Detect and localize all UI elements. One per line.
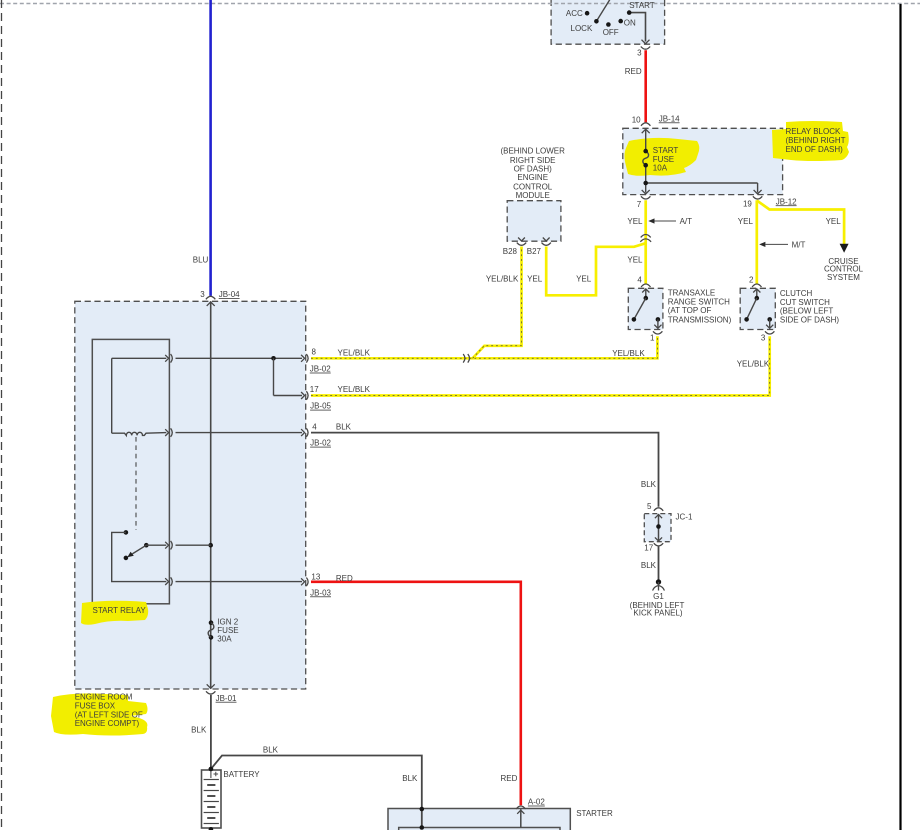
svg-text:7: 7 [637, 200, 642, 209]
svg-text:STARTER: STARTER [576, 809, 613, 818]
svg-text:ACC: ACC [566, 9, 583, 18]
svg-text:MODULE: MODULE [516, 191, 550, 200]
svg-text:19: 19 [743, 199, 752, 208]
svg-text:LOCK: LOCK [571, 24, 593, 33]
svg-text:4: 4 [312, 423, 317, 432]
svg-text:JB-01: JB-01 [216, 694, 237, 703]
svg-text:10: 10 [632, 116, 641, 125]
svg-text:YEL: YEL [627, 217, 643, 226]
svg-text:BLK: BLK [263, 745, 279, 754]
svg-text:JB-02: JB-02 [310, 365, 331, 374]
svg-text:17: 17 [644, 543, 653, 552]
svg-text:YEL/BLK: YEL/BLK [486, 274, 519, 283]
svg-text:SYSTEM: SYSTEM [827, 273, 860, 282]
svg-text:RED: RED [501, 774, 518, 783]
svg-text:RED: RED [336, 574, 353, 583]
svg-text:YEL/BLK: YEL/BLK [338, 385, 371, 394]
svg-text:(AT TOP OF: (AT TOP OF [668, 306, 712, 315]
svg-text:3: 3 [761, 334, 766, 343]
svg-text:IGN 2: IGN 2 [217, 617, 238, 626]
svg-text:FUSE BOX: FUSE BOX [75, 702, 116, 711]
svg-text:1: 1 [650, 334, 655, 343]
svg-text:A-02: A-02 [528, 798, 545, 807]
svg-text:10A: 10A [653, 164, 668, 173]
svg-text:5: 5 [647, 502, 652, 511]
svg-text:13: 13 [311, 572, 320, 581]
svg-text:(AT LEFT SIDE OF: (AT LEFT SIDE OF [75, 710, 143, 719]
svg-text:RIGHT SIDE: RIGHT SIDE [510, 156, 556, 165]
svg-text:START: START [653, 146, 679, 155]
svg-text:JC-1: JC-1 [676, 513, 693, 522]
svg-text:RELAY BLOCK: RELAY BLOCK [786, 127, 842, 136]
svg-text:JB-03: JB-03 [310, 588, 331, 597]
svg-text:BLK: BLK [641, 561, 657, 570]
svg-text:JB-02: JB-02 [310, 439, 331, 448]
svg-text:B28: B28 [503, 247, 518, 256]
svg-text:RANGE SWITCH: RANGE SWITCH [668, 297, 730, 306]
svg-text:BLK: BLK [191, 725, 207, 734]
svg-text:BLK: BLK [402, 774, 418, 783]
svg-text:ENGINE COMPT): ENGINE COMPT) [75, 719, 140, 728]
svg-text:JB-04: JB-04 [219, 290, 240, 299]
svg-text:M/T: M/T [792, 240, 806, 249]
svg-text:G1: G1 [653, 592, 664, 601]
svg-text:ENGINE ROOM: ENGINE ROOM [75, 693, 133, 702]
svg-text:BATTERY: BATTERY [223, 770, 260, 779]
svg-text:(BELOW LEFT: (BELOW LEFT [780, 307, 833, 316]
svg-text:END OF DASH): END OF DASH) [786, 145, 844, 154]
svg-text:JB-05: JB-05 [310, 402, 331, 411]
svg-text:OF DASH): OF DASH) [514, 165, 553, 174]
svg-text:SIDE OF DASH): SIDE OF DASH) [780, 315, 839, 324]
svg-text:KICK PANEL): KICK PANEL) [633, 608, 683, 617]
svg-text:BLK: BLK [336, 423, 352, 432]
svg-text:YEL: YEL [826, 217, 842, 226]
svg-text:OFF: OFF [603, 28, 619, 37]
svg-text:ENGINE: ENGINE [517, 173, 548, 182]
svg-text:8: 8 [312, 348, 317, 357]
svg-text:CONTROL: CONTROL [513, 182, 553, 191]
svg-text:START: START [629, 1, 655, 10]
svg-text:JB-12: JB-12 [776, 197, 797, 206]
svg-text:YEL: YEL [576, 274, 592, 283]
svg-text:30A: 30A [217, 635, 232, 644]
svg-text:FUSE: FUSE [653, 155, 674, 164]
svg-text:YEL: YEL [627, 255, 643, 264]
svg-text:2: 2 [749, 276, 754, 285]
svg-text:YEL/BLK: YEL/BLK [338, 348, 371, 357]
svg-text:TRANSAXLE: TRANSAXLE [668, 289, 716, 298]
svg-text:3: 3 [200, 290, 205, 299]
svg-text:YEL/BLK: YEL/BLK [737, 359, 770, 368]
svg-text:YEL/BLK: YEL/BLK [612, 349, 645, 358]
svg-text:START RELAY: START RELAY [93, 606, 147, 615]
svg-text:BLK: BLK [641, 480, 657, 489]
svg-text:YEL: YEL [738, 217, 754, 226]
svg-text:CLUTCH: CLUTCH [780, 289, 813, 298]
svg-text:A/T: A/T [680, 217, 693, 226]
svg-text:BLU: BLU [193, 255, 209, 264]
svg-text:B27: B27 [527, 247, 542, 256]
svg-text:17: 17 [310, 385, 319, 394]
svg-text:3: 3 [637, 49, 642, 58]
svg-text:RED: RED [625, 67, 642, 76]
svg-text:4: 4 [637, 276, 642, 285]
svg-text:JB-14: JB-14 [659, 114, 680, 123]
svg-text:YEL: YEL [527, 274, 543, 283]
svg-text:TRANSMISSION): TRANSMISSION) [668, 315, 732, 324]
svg-text:(BEHIND RIGHT: (BEHIND RIGHT [786, 136, 846, 145]
svg-text:(BEHIND LOWER: (BEHIND LOWER [500, 146, 565, 155]
svg-text:ON: ON [624, 19, 636, 28]
